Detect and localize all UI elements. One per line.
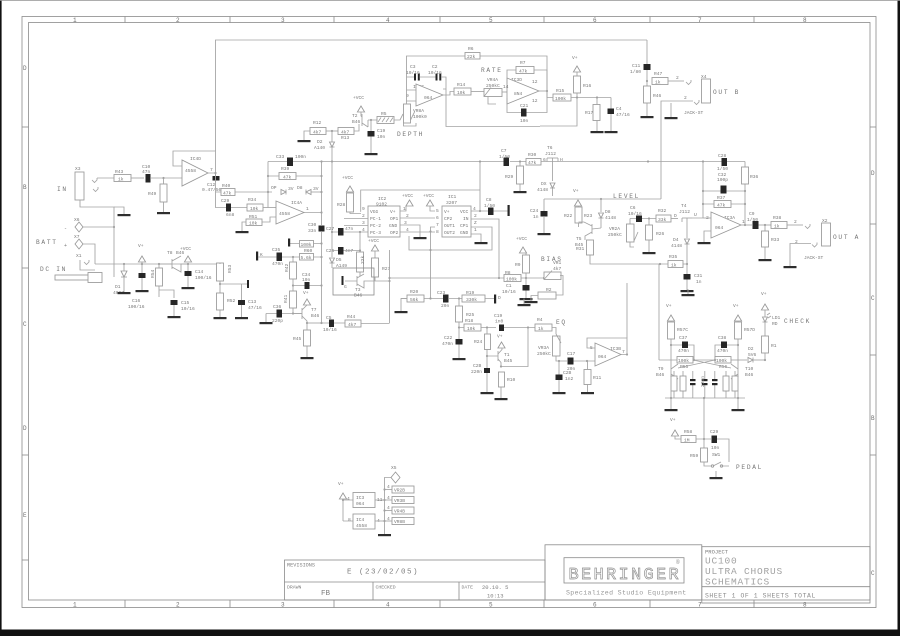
svg-text:T6: T6: [547, 145, 553, 151]
svg-text:100/16: 100/16: [128, 304, 145, 310]
ground top center: [682, 294, 695, 296]
svg-text:100k: 100k: [301, 242, 312, 248]
svg-text:10/16: 10/16: [181, 306, 195, 312]
svg-text:R9: R9: [515, 262, 521, 268]
svg-text:D2: D2: [748, 346, 754, 352]
jack X2 ring arrow: [812, 243, 817, 248]
net bar right of R53: [247, 280, 249, 288]
wire IC3D out: [539, 90, 547, 92]
wire C2 feedback loop down: [446, 89, 540, 127]
svg-text:10k: 10k: [457, 90, 466, 96]
svg-text:R11: R11: [593, 375, 602, 381]
svg-text:1n: 1n: [696, 279, 702, 285]
jack X3 tip arrow: [92, 178, 97, 183]
svg-text:V+: V+: [497, 334, 503, 340]
ground T9: [665, 409, 678, 411]
wire IC2C out to R14: [443, 92, 454, 96]
svg-text:R58: R58: [684, 429, 693, 435]
svg-text:Z: Z: [474, 220, 477, 226]
svg-text:20n: 20n: [441, 303, 450, 309]
wire jack ring to level line: [661, 101, 693, 199]
svg-text:20.10. 5: 20.10. 5: [482, 584, 508, 591]
net bar G: [508, 205, 510, 216]
capacitor C42 220n: [712, 379, 718, 381]
svg-text:R47: R47: [654, 71, 663, 77]
svg-text:C19: C19: [494, 313, 503, 319]
svg-text:R39: R39: [281, 166, 290, 172]
svg-text:C36: C36: [273, 304, 282, 310]
svg-text:C30: C30: [308, 222, 317, 228]
svg-text:3207: 3207: [446, 200, 457, 206]
svg-text:R6: R6: [468, 46, 474, 52]
svg-text:C8: C8: [486, 197, 492, 203]
svg-text:4: 4: [387, 484, 390, 490]
svg-text:C2: C2: [432, 64, 438, 70]
page right black edge: [898, 0, 900, 636]
svg-text:R20: R20: [410, 289, 419, 295]
svg-text:D: D: [674, 213, 677, 219]
svg-text:1k: 1k: [118, 177, 124, 183]
jack X4 tip arrow: [686, 80, 691, 85]
svg-text:VR4A: VR4A: [487, 77, 498, 83]
resistor R25: [456, 306, 463, 322]
net bar D: [494, 295, 496, 304]
svg-text:47/16: 47/16: [248, 305, 262, 311]
svg-text:2: 2: [406, 213, 409, 219]
svg-text:C2B: C2B: [473, 363, 482, 369]
svg-text:+VCC: +VCC: [423, 193, 434, 199]
cross coupling wires: [678, 360, 731, 368]
svg-text:56k: 56k: [410, 297, 419, 303]
svg-text:4k7: 4k7: [553, 266, 562, 272]
svg-text:C14: C14: [195, 269, 204, 275]
svg-text:C9: C9: [749, 211, 755, 217]
svg-text:GND: GND: [389, 223, 398, 229]
svg-text:064: 064: [356, 501, 365, 507]
capacitor C27 47n: [338, 228, 344, 236]
svg-text:R23: R23: [584, 213, 593, 219]
svg-text:IN: IN: [463, 216, 469, 222]
svg-text:10k: 10k: [467, 326, 476, 332]
svg-text:250kC: 250kC: [608, 232, 622, 238]
svg-text:C17: C17: [567, 351, 576, 357]
svg-text:D8: D8: [605, 209, 611, 215]
svg-text:C22: C22: [444, 335, 453, 341]
svg-text:DEPTH: DEPTH: [397, 131, 424, 138]
svg-text:X5: X5: [391, 465, 397, 471]
svg-text:T2: T2: [352, 113, 358, 119]
svg-text:47k: 47k: [528, 160, 537, 166]
svg-text:4k7: 4k7: [348, 322, 357, 328]
svg-text:C: C: [23, 321, 27, 328]
svg-text:1k: 1k: [774, 224, 780, 230]
wire jack sleeve down: [80, 200, 114, 277]
svg-text:R53: R53: [227, 264, 233, 273]
wire level line: [544, 198, 661, 200]
wire T1 emitter loop: [501, 328, 528, 367]
svg-text:IC4A: IC4A: [291, 200, 302, 206]
svg-text:220n: 220n: [471, 369, 482, 375]
svg-text:5V6: 5V6: [748, 352, 757, 358]
svg-text:2: 2: [176, 602, 180, 609]
svg-text:100k0: 100k0: [413, 114, 427, 120]
ground left of R12: [298, 140, 311, 142]
svg-text:+VCC: +VCC: [180, 246, 191, 252]
wire V+ down: [343, 499, 353, 521]
svg-text:PC-2: PC-2: [370, 223, 381, 229]
diode D1 4007: [121, 271, 127, 277]
svg-text:R4: R4: [537, 317, 543, 323]
svg-text:R26: R26: [656, 231, 665, 237]
wire R43 to C10: [131, 177, 144, 179]
svg-text:BEHRINGER: BEHRINGER: [569, 566, 682, 585]
resistor R61 22k: [357, 252, 364, 272]
svg-text:CHECK: CHECK: [784, 318, 811, 325]
svg-text:C31: C31: [694, 273, 703, 279]
svg-text:47/16: 47/16: [616, 112, 630, 118]
svg-text:R45: R45: [293, 336, 302, 342]
svg-text:1/80: 1/80: [630, 69, 641, 75]
IC2 pin wires right: [400, 206, 435, 237]
svg-text:1: 1: [73, 602, 77, 609]
svg-text:250kC: 250kC: [537, 351, 551, 357]
svg-text:47k: 47k: [223, 191, 232, 197]
svg-text:1: 1: [306, 206, 309, 212]
svg-text:14: 14: [503, 84, 509, 90]
IC3A plus ground: [704, 231, 711, 242]
svg-text:PC-3: PC-3: [370, 230, 381, 236]
wire IC1 CP1 loop: [409, 227, 492, 250]
svg-text:2: 2: [794, 219, 797, 225]
resistor R27: [372, 258, 379, 277]
wire C10 to IC4D + junction: [151, 177, 182, 179]
svg-text:1: 1: [474, 227, 477, 233]
svg-text:8: 8: [803, 602, 807, 609]
svg-text:10n: 10n: [520, 118, 529, 124]
svg-text:VR2A: VR2A: [609, 226, 620, 232]
svg-text:470n: 470n: [678, 348, 689, 354]
svg-text:OP2: OP2: [390, 230, 399, 236]
svg-text:R52: R52: [227, 298, 236, 304]
wire IC1 VCC up to bus: [471, 162, 508, 212]
svg-text:C6: C6: [630, 205, 636, 211]
svg-text:C35: C35: [272, 247, 281, 253]
svg-text:R35: R35: [669, 254, 678, 260]
svg-text:VR8A: VR8A: [413, 108, 424, 114]
svg-text:47n: 47n: [345, 226, 354, 232]
svg-text:B: B: [23, 184, 27, 191]
wire T3 down vertical: [389, 250, 391, 323]
svg-text:47k: 47k: [717, 203, 726, 209]
svg-text:C: C: [871, 295, 875, 302]
svg-text:470n: 470n: [272, 261, 283, 267]
svg-text:V+: V+: [733, 303, 739, 309]
ground below X3: [118, 214, 131, 216]
svg-text:4558: 4558: [279, 211, 290, 217]
svg-text:VGG: VGG: [370, 209, 379, 215]
wire junction down-left: [540, 98, 577, 127]
svg-text:4558: 4558: [185, 168, 196, 174]
capacitor C13 47/16: [238, 300, 245, 305]
svg-text:R28: R28: [337, 202, 346, 208]
svg-text:B46: B46: [656, 372, 665, 378]
resistor R24: [485, 334, 491, 350]
svg-text:VR2B: VR2B: [394, 488, 405, 494]
svg-text:J112: J112: [679, 209, 690, 215]
svg-text:33n: 33n: [308, 228, 317, 234]
net label VR3B: [385, 499, 393, 501]
svg-text:V+: V+: [303, 290, 309, 296]
svg-text:1k: 1k: [655, 80, 661, 86]
svg-text:R46: R46: [653, 93, 662, 99]
svg-text:1: 1: [742, 219, 745, 225]
wire IC4A out to vertical: [304, 212, 322, 214]
wire top bus down to C11: [646, 40, 648, 64]
svg-text:C33: C33: [276, 154, 285, 160]
svg-text:R57D: R57D: [744, 327, 755, 333]
svg-text:C21: C21: [520, 103, 529, 109]
svg-text:D: D: [871, 170, 875, 177]
resistor R46: [644, 86, 651, 103]
jack X3 ring arrow: [93, 187, 98, 192]
resistor R16: [574, 76, 581, 93]
resistor R53: [217, 263, 224, 281]
svg-text:D4: D4: [673, 237, 679, 243]
svg-text:R15: R15: [556, 88, 565, 94]
svg-text:E: E: [23, 512, 27, 519]
wire IC4D out down to IC4A input: [216, 173, 223, 208]
resistor R26: [646, 225, 653, 240]
svg-text:OP: OP: [271, 185, 277, 191]
svg-text:C38: C38: [718, 335, 727, 341]
svg-text:IC2: IC2: [378, 196, 387, 202]
wire DC rail: [95, 263, 220, 265]
svg-text:10/16: 10/16: [323, 327, 337, 333]
wire IC1 outputs down: [431, 227, 436, 299]
resistor R1: [762, 336, 769, 353]
svg-text:10n: 10n: [377, 134, 386, 140]
svg-text:DX: DX: [541, 181, 547, 187]
svg-text:6: 6: [593, 17, 597, 24]
svg-text:22k: 22k: [360, 255, 366, 264]
svg-text:+VCC: +VCC: [353, 95, 364, 101]
svg-text:R34: R34: [248, 197, 257, 203]
svg-text:ULTRA CHORUS: ULTRA CHORUS: [705, 566, 783, 577]
svg-text:PEDAL: PEDAL: [736, 464, 763, 471]
svg-text:CHECKED: CHECKED: [376, 585, 396, 591]
svg-text:D: D: [23, 65, 27, 72]
svg-text:B: B: [871, 415, 875, 422]
svg-text:VCC: VCC: [460, 209, 469, 215]
resistor R31: [587, 240, 594, 255]
resistor R55 100k: [677, 357, 693, 364]
svg-text:10:13: 10:13: [487, 593, 504, 600]
wire right vert node x=703: [702, 162, 704, 219]
resistor R13 4k7: [338, 128, 354, 135]
resistor R22 R23: [575, 207, 582, 223]
wire bottom row multivib: [665, 391, 745, 420]
svg-text:8: 8: [348, 517, 351, 523]
ground below R49: [157, 212, 170, 214]
resistor R57C: [668, 322, 675, 339]
svg-text:3V: 3V: [313, 186, 319, 192]
svg-text:C4: C4: [616, 106, 622, 112]
wire IC3A out: [741, 224, 752, 226]
resistor R52B: [680, 376, 686, 391]
capacitor C16 100/16: [139, 273, 146, 278]
svg-text:064: 064: [598, 354, 607, 360]
svg-text:EQ: EQ: [556, 319, 567, 326]
wire right vert node x=745: [744, 162, 746, 226]
resistor R57A: [674, 371, 735, 398]
svg-text:B46: B46: [354, 293, 363, 299]
behringer block: [545, 545, 702, 600]
svg-text:7: 7: [436, 222, 439, 228]
svg-text:100k: 100k: [678, 358, 689, 364]
project block: [702, 547, 870, 603]
wire IC2C minus from pot: [407, 77, 417, 104]
svg-text:470n: 470n: [717, 348, 728, 354]
svg-text:100/16: 100/16: [195, 275, 212, 281]
svg-text:SCHEMATICS: SCHEMATICS: [705, 577, 770, 588]
svg-text:T7: T7: [311, 307, 317, 313]
svg-text:R38: R38: [773, 215, 782, 221]
page bottom black band: [0, 630, 900, 636]
svg-text:3: 3: [281, 17, 285, 24]
net label VR8B: [385, 520, 393, 522]
svg-text:7: 7: [698, 17, 702, 24]
svg-text:R18: R18: [465, 318, 474, 324]
svg-text:064: 064: [715, 225, 724, 231]
svg-text:DRAWN: DRAWN: [287, 585, 302, 591]
svg-text:9: 9: [362, 206, 365, 212]
svg-text:PROJECT: PROJECT: [705, 549, 729, 556]
svg-text:D8: D8: [297, 185, 303, 191]
svg-text:PC-1: PC-1: [370, 216, 381, 222]
svg-text:5: 5: [489, 17, 493, 24]
svg-text:R57C: R57C: [677, 327, 688, 333]
resistor R52: [217, 293, 224, 310]
svg-text:1n0: 1n0: [495, 319, 504, 325]
svg-text:R41: R41: [283, 294, 289, 303]
svg-text:C15: C15: [181, 300, 190, 306]
ground below R51: [236, 231, 249, 233]
svg-text:10k: 10k: [250, 206, 259, 212]
svg-text:5.6k: 5.6k: [301, 255, 312, 261]
wire IC1 GND ground: [471, 234, 481, 242]
svg-text:R32: R32: [658, 208, 667, 214]
wire from R35 node down: [658, 264, 660, 360]
svg-text:2: 2: [474, 213, 477, 219]
svg-text:5: 5: [436, 208, 439, 214]
svg-text:1n2: 1n2: [565, 376, 574, 382]
svg-text:R1: R1: [771, 343, 777, 349]
svg-text:+VCC: +VCC: [342, 175, 353, 181]
svg-text:X3: X3: [75, 166, 81, 172]
svg-text:1k: 1k: [671, 263, 677, 269]
svg-text:R24: R24: [474, 339, 483, 345]
svg-text:VR1: VR1: [553, 260, 562, 266]
svg-text:R10: R10: [507, 377, 516, 383]
svg-text:C37: C37: [679, 335, 688, 341]
IC IC3 064: [353, 493, 375, 508]
svg-text:CP1: CP1: [460, 223, 469, 229]
svg-text:T10: T10: [745, 366, 754, 372]
svg-text:C29: C29: [221, 198, 230, 204]
svg-text:4n7: 4n7: [345, 248, 354, 254]
svg-text:1k: 1k: [538, 326, 544, 332]
svg-text:C7: C7: [501, 148, 507, 154]
resistor R45: [304, 330, 311, 346]
svg-text:UC100: UC100: [705, 556, 738, 567]
svg-text:6: 6: [436, 215, 439, 221]
resistor R56 100k: [715, 357, 731, 364]
wire C6 left from pot: [629, 219, 631, 225]
wire IC3B feedback loop: [587, 338, 627, 355]
svg-text:B46: B46: [311, 313, 320, 319]
wire IC3B out up: [626, 283, 628, 338]
wire main mid bus y=161.5: [268, 161, 745, 163]
svg-text:T9: T9: [658, 366, 664, 372]
svg-text:R44: R44: [347, 314, 356, 320]
svg-text:IC1: IC1: [448, 194, 457, 200]
ground stub right: [523, 299, 525, 305]
svg-text:C13: C13: [248, 299, 257, 305]
svg-text:R22: R22: [564, 213, 573, 219]
svg-text:+VCC: +VCC: [402, 193, 413, 199]
svg-text:JACK-ST: JACK-ST: [684, 110, 704, 116]
resistor R60 100k: [300, 241, 314, 248]
svg-text:T8: T8: [167, 250, 173, 256]
revisions block: [285, 560, 546, 600]
svg-text:VR3B: VR3B: [394, 498, 405, 504]
svg-text:7: 7: [210, 167, 213, 173]
resistor R28: [347, 193, 354, 212]
wire jack ring left: [790, 244, 811, 267]
svg-text:4: 4: [387, 495, 390, 501]
svg-text:OUT2: OUT2: [444, 230, 455, 236]
wire jack tip to R43: [97, 177, 114, 179]
svg-text:JACK-ST: JACK-ST: [804, 255, 824, 261]
svg-text:OUT A: OUT A: [833, 234, 860, 241]
svg-text:V+: V+: [138, 243, 144, 249]
wire X5 bus: [385, 478, 392, 535]
svg-text:5: 5: [489, 602, 493, 609]
svg-text:R49: R49: [148, 191, 157, 197]
resistor R33: [762, 231, 769, 247]
svg-text:RD: RD: [772, 321, 778, 327]
wire IC1 IN down to bus278: [471, 219, 499, 278]
svg-text:V+: V+: [761, 291, 767, 297]
svg-text:4558: 4558: [356, 523, 367, 529]
capacitor C26 4n7: [338, 247, 344, 255]
svg-text:BATT: BATT: [36, 239, 58, 246]
svg-text:V+: V+: [390, 209, 396, 215]
svg-text:VR3A: VR3A: [538, 345, 549, 351]
svg-text:V+: V+: [338, 481, 344, 487]
ground below IC2: [414, 237, 427, 239]
svg-text:B46: B46: [352, 119, 361, 125]
svg-text:SHEET 1 OF 1 SHEETS TOTAL: SHEET 1 OF 1 SHEETS TOTAL: [705, 593, 816, 600]
svg-text:VR4B: VR4B: [394, 509, 405, 515]
resistor R57D: [735, 322, 742, 339]
jack X4 ring arrow: [694, 100, 699, 105]
resistor R10: [499, 372, 505, 387]
wire long top bus y=40: [216, 40, 648, 151]
svg-text:R31: R31: [576, 246, 585, 252]
svg-text:X1: X1: [76, 253, 82, 259]
svg-text:100k: 100k: [506, 277, 517, 283]
